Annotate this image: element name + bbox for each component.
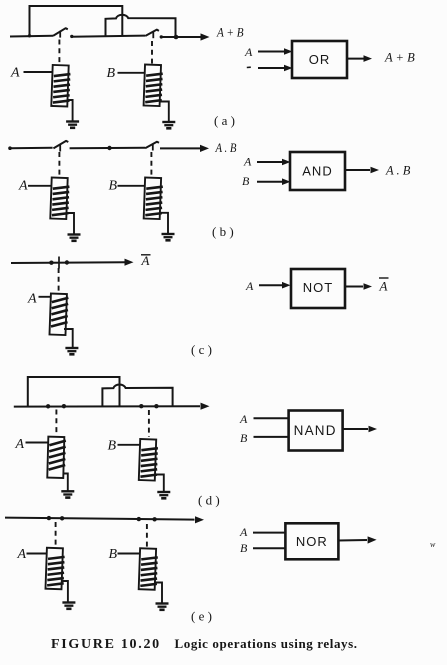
wire AND output [345, 169, 370, 171]
arrowhead NOT input [282, 282, 291, 289]
wire NAND input 2 [254, 436, 289, 438]
wire NOT output [345, 286, 363, 288]
arrowhead OR input 1 [284, 48, 293, 55]
svg-text:FIGURE 10.20: FIGURE 10.20 [51, 637, 161, 652]
node contact dot B right (e) [152, 517, 156, 521]
node contact dot A right (d) [62, 404, 66, 408]
switch A blade (a) [53, 28, 68, 36]
wire coil A to ground (e) [62, 581, 68, 602]
node junction output (a) [174, 35, 179, 40]
svg-text:A: A [18, 179, 28, 194]
wire dashed switch A to coil (e) [55, 522, 57, 548]
wire middle (b) [70, 147, 146, 149]
wire output (a) [161, 36, 202, 38]
wire NOR output [338, 539, 367, 542]
switch B contact bar (a) [152, 32, 154, 39]
AND gate box [290, 152, 345, 190]
wire AND input 1 [257, 161, 283, 163]
wire coil B to ground (b) [160, 213, 168, 233]
wire dashed switch B to coil (d) [148, 410, 150, 437]
relay coil A (e) [45, 548, 64, 590]
svg-text:A: A [239, 412, 248, 426]
node contact dot B left (d) [139, 404, 143, 408]
svg-text:B: B [109, 547, 118, 562]
relay coil A (a) [51, 65, 70, 107]
arrowhead AND input 1 [282, 159, 291, 166]
wire input (a) [10, 35, 53, 38]
svg-text:A: A [239, 525, 248, 539]
wire A to coil (d) [26, 442, 49, 444]
ground B (b) [162, 234, 175, 240]
wire OR input 2 [258, 67, 285, 69]
overbar of Abar NOT output [379, 277, 389, 279]
wire B to coil (e) [118, 553, 140, 555]
svg-text:NOT: NOT [303, 280, 333, 295]
wire OR output [347, 58, 364, 60]
wire NAND output [343, 428, 368, 430]
ground A (e) [62, 603, 75, 609]
wire bypass 2 (d) [102, 385, 172, 407]
wire NOR input 1 [253, 532, 285, 534]
wire middle (a) [71, 36, 145, 37]
svg-text:NOR: NOR [296, 534, 328, 549]
wire OR input 1 [258, 51, 285, 53]
relay coil A (c) [49, 294, 68, 336]
wire coil B to ground (d) [156, 475, 164, 493]
svg-text:( b ): ( b ) [212, 224, 234, 239]
wire input (b) [10, 147, 53, 149]
svg-text:OR: OR [309, 52, 331, 67]
svg-text:A: A [27, 292, 37, 307]
wire dashed switch B to coil (e) [146, 524, 148, 547]
wire NAND input 1 [254, 417, 289, 419]
wire main (c) [11, 261, 125, 264]
wire B to coil (a) [118, 72, 145, 74]
OR gate box [292, 41, 347, 78]
wire A to coil (e) [27, 553, 47, 555]
ground B (e) [156, 604, 169, 610]
switch NC tick (c) [58, 257, 60, 269]
wire main (e) [5, 518, 195, 520]
wire bypass 1 (d) [28, 377, 120, 406]
svg-text:B: B [108, 439, 117, 454]
svg-text:( d ): ( d ) [198, 493, 220, 508]
wire coil to ground (c) [64, 329, 73, 347]
arrowhead NOT output [364, 283, 373, 290]
relay coil B (a) [144, 65, 163, 107]
svg-text:A: A [10, 66, 20, 81]
wire dashed switch to coil (c) [58, 268, 60, 291]
wire dashed switch A to coil (b) [58, 152, 60, 177]
arrowhead NOR output [368, 536, 377, 543]
node contact dot right (c) [65, 260, 69, 264]
wire B to coil (b) [118, 185, 145, 187]
wire coil A to ground (a) [68, 100, 73, 121]
ground A (d) [61, 491, 74, 497]
ground A (a) [66, 122, 79, 128]
relay coil B (e) [139, 548, 158, 590]
relay coil B (b) [144, 178, 163, 220]
ground (c) [65, 348, 78, 354]
wire NOT input [259, 284, 283, 286]
ground B (a) [162, 122, 175, 128]
arrowhead OR output [364, 55, 373, 62]
wire dashed link switch A to coil (a) [58, 40, 60, 65]
wire coil B to ground (e) [155, 583, 162, 603]
switch A contact bar (b) [59, 144, 61, 152]
node contact right switch B (a) [160, 35, 163, 38]
ground B (d) [157, 492, 170, 498]
svg-text:A: A [243, 155, 252, 169]
wire output (b) [160, 147, 201, 149]
arrowhead NAND output [369, 426, 378, 433]
node contact dot left (c) [49, 261, 53, 265]
arrowhead output (c) [125, 259, 134, 266]
svg-text:Logic operations using relays.: Logic operations using relays. [175, 636, 358, 651]
svg-text:( e ): ( e ) [191, 609, 212, 624]
svg-text:A + B: A + B [384, 51, 415, 65]
svg-text:B: B [240, 541, 248, 555]
wire bypass 1 over switch A (a) [30, 6, 123, 36]
arrowhead AND output [371, 167, 380, 174]
svg-text:A: A [244, 45, 253, 59]
label dash input OR [247, 66, 251, 68]
wire dashed link switch B to coil (a) [151, 41, 153, 64]
arrowhead AND input 2 [282, 178, 291, 185]
node contact dot A right (e) [60, 516, 64, 520]
wire A to coil (a) [24, 71, 53, 73]
svg-text:w: w [430, 540, 436, 549]
svg-text:NAND: NAND [294, 423, 337, 438]
node junction bypass1 (a) [28, 34, 31, 37]
node input dot (b) [8, 146, 12, 150]
relay coil B (d) [139, 439, 158, 481]
svg-text:A: A [379, 279, 388, 294]
switch B blade (b) [145, 142, 159, 149]
svg-text:B: B [107, 66, 116, 81]
arrowhead output (b) [200, 145, 209, 152]
node contact dot B right (d) [154, 404, 158, 408]
ground A (b) [68, 235, 81, 241]
wire dashed switch B to coil (b) [150, 152, 152, 177]
node contact dot A left (d) [46, 404, 50, 408]
wire A to coil (c) [39, 296, 52, 298]
svg-text:( c ): ( c ) [191, 342, 212, 357]
svg-text:B: B [109, 179, 118, 194]
node contact right switch A (a) [70, 35, 73, 38]
switch B blade (a) [145, 30, 159, 36]
node contact dot B left (e) [137, 517, 141, 521]
arrowhead OR input 2 [284, 65, 293, 72]
svg-text:A + B: A + B [216, 25, 243, 40]
wire coil A to ground (b) [66, 213, 74, 234]
svg-text:A: A [245, 279, 254, 293]
wire coil B to ground (a) [160, 102, 169, 122]
wire bypass 2 over switch B (a) [106, 15, 176, 37]
wire coil A to ground (d) [64, 474, 68, 492]
wire A to coil (b) [28, 185, 51, 187]
svg-text:AND: AND [302, 164, 332, 179]
svg-text:A . B: A . B [385, 164, 411, 178]
relay coil A (d) [47, 437, 66, 478]
arrowhead output (a) [201, 33, 210, 40]
svg-text:B: B [240, 431, 248, 445]
node contact dot A left (e) [47, 516, 51, 520]
svg-text:B: B [242, 174, 250, 188]
switch B contact bar (b) [152, 144, 154, 151]
svg-text:( a ): ( a ) [214, 113, 235, 128]
arrowhead output (e) [195, 516, 204, 523]
wire main (d) [14, 405, 200, 407]
wire AND input 2 [257, 181, 283, 183]
overbar of Abar (c) [141, 254, 151, 256]
svg-text:A: A [15, 437, 25, 452]
relay coil A (b) [50, 178, 69, 220]
NOT gate box [291, 269, 345, 308]
wire dashed switch A to coil (d) [55, 410, 57, 436]
NOR gate box [285, 523, 338, 559]
wire NOR input 2 [253, 547, 285, 549]
wire B to coil (d) [118, 444, 140, 446]
switch A contact bar (a) [59, 31, 61, 38]
NAND gate box [289, 411, 343, 451]
node junction middle (b) [107, 146, 111, 150]
svg-text:A: A [17, 547, 27, 562]
svg-text:A . B: A . B [215, 141, 237, 155]
switch A blade (b) [53, 141, 68, 149]
arrowhead output (d) [201, 403, 210, 410]
